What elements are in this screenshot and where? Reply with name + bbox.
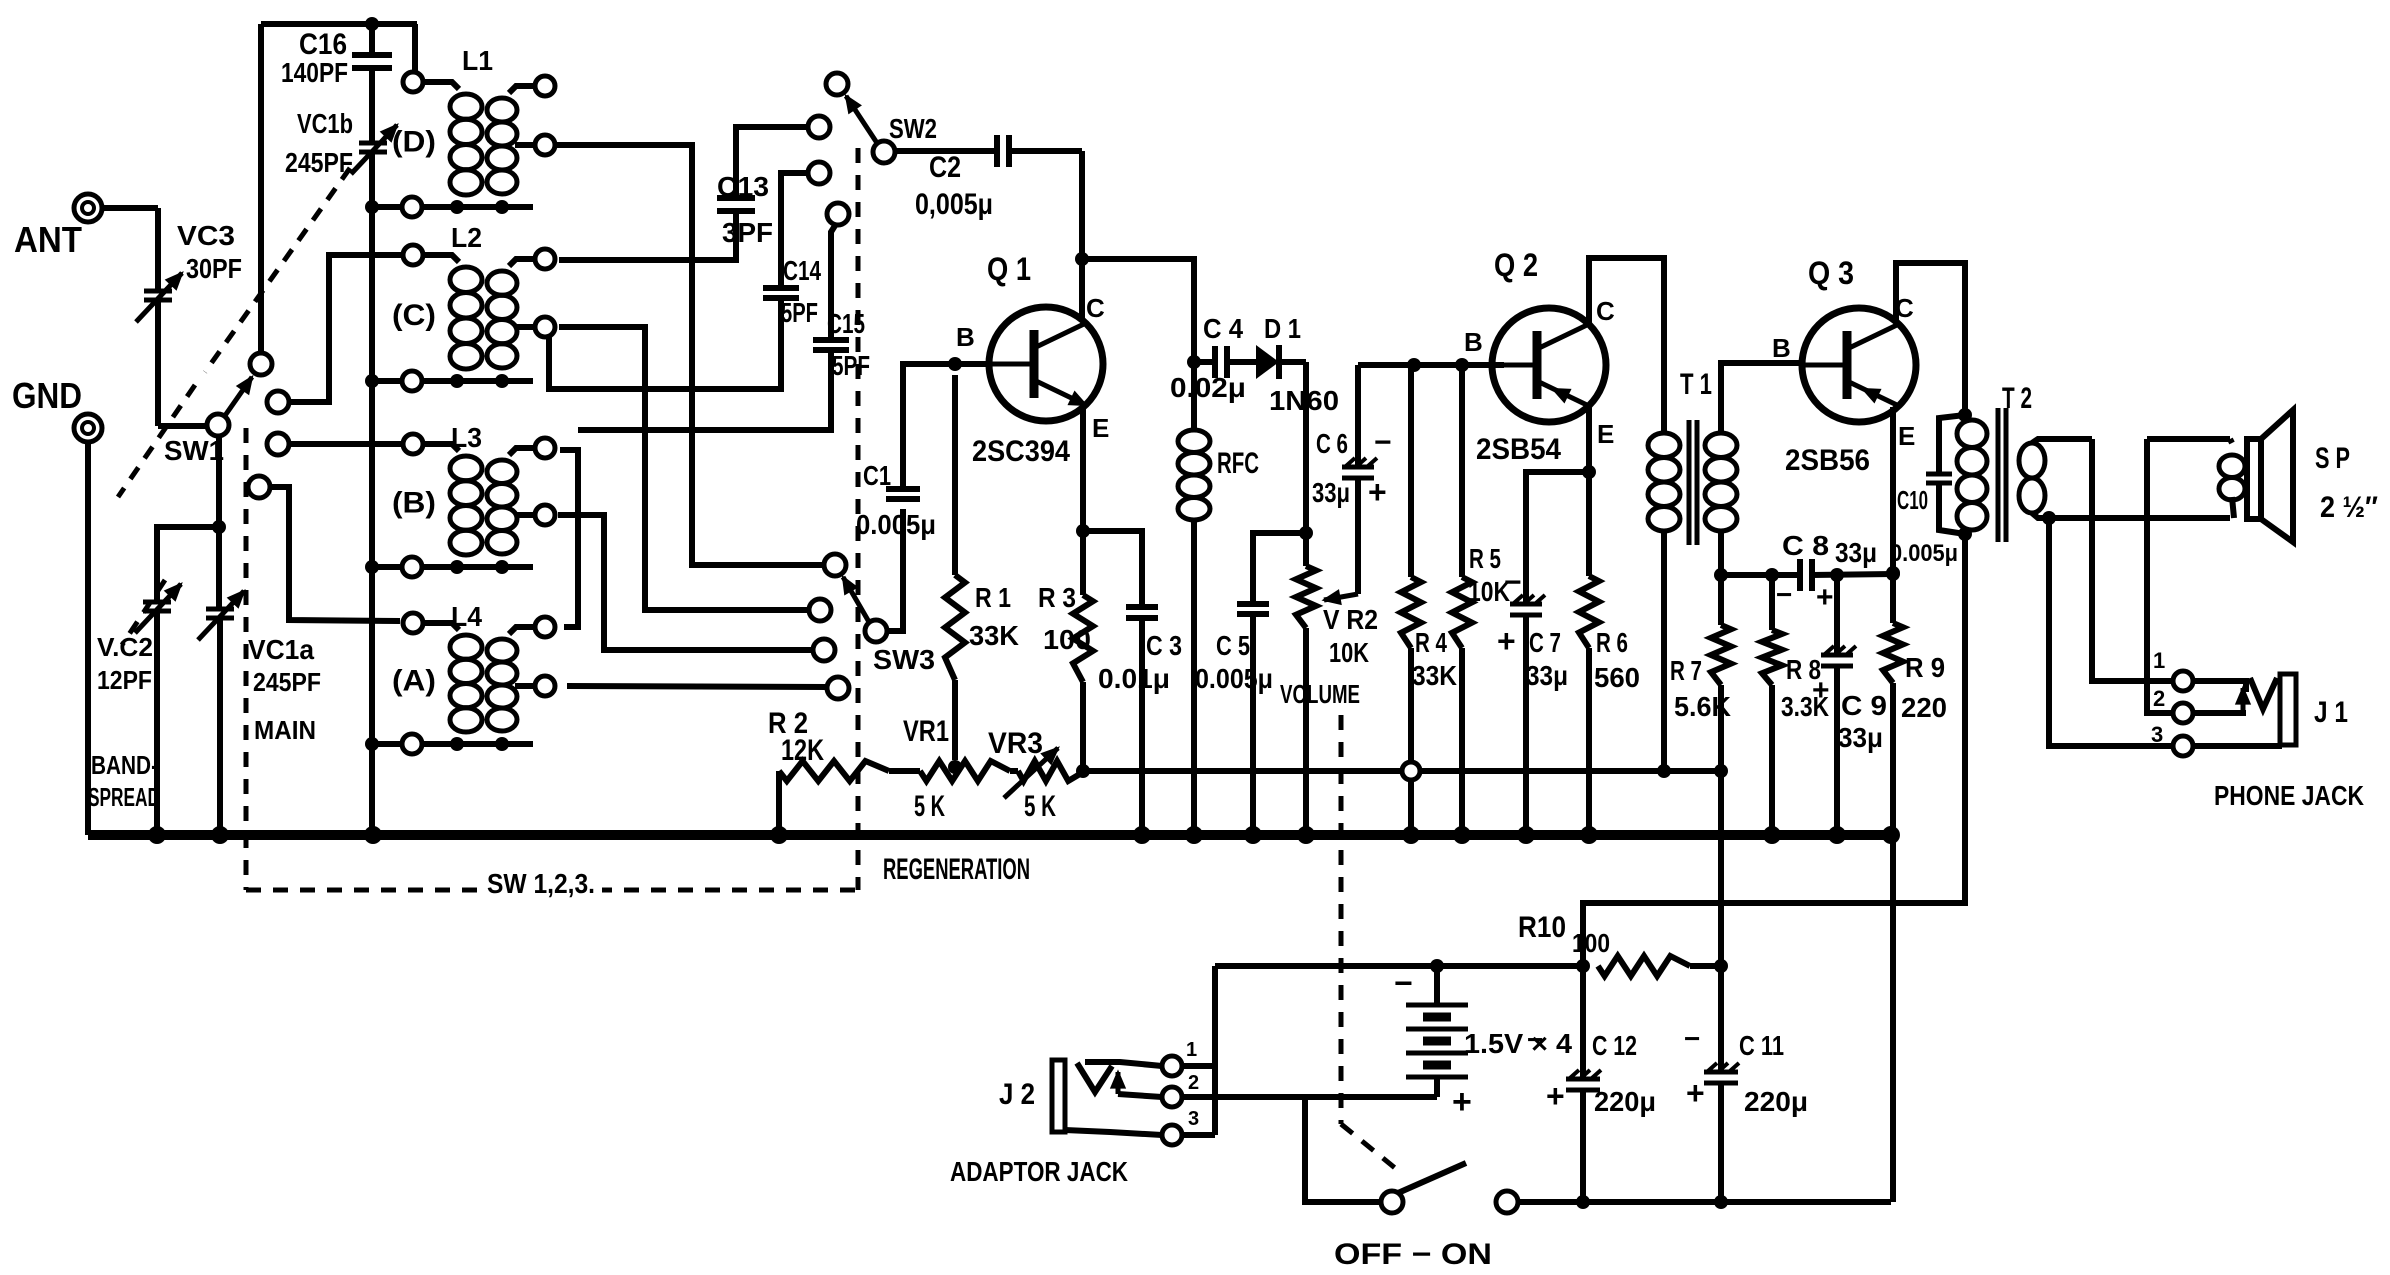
svg-text:RFC: RFC (1217, 447, 1259, 480)
svg-text:10K: 10K (1329, 637, 1369, 668)
svg-text:33μ: 33μ (1838, 722, 1883, 753)
svg-text:220μ: 220μ (1744, 1086, 1808, 1117)
svg-text:BAND-: BAND- (91, 750, 158, 780)
svg-text:T 2: T 2 (2002, 382, 2032, 415)
svg-text:B: B (1772, 333, 1791, 363)
svg-text:C 11: C 11 (1739, 1030, 1784, 1061)
svg-text:(A): (A) (392, 665, 436, 698)
svg-text:Q 2: Q 2 (1494, 247, 1538, 283)
svg-text:245PF: 245PF (253, 667, 321, 697)
svg-text:0.02μ: 0.02μ (1170, 372, 1246, 403)
svg-text:V.C2: V.C2 (97, 632, 153, 662)
svg-text:J 1: J 1 (2314, 696, 2348, 729)
svg-text:2 ½″: 2 ½″ (2320, 491, 2378, 524)
svg-text:5PF: 5PF (781, 297, 818, 328)
svg-text:−: − (1504, 566, 1522, 599)
svg-text:3: 3 (2151, 722, 2163, 747)
svg-text:C 3: C 3 (1146, 630, 1182, 661)
svg-text:560: 560 (1594, 662, 1640, 693)
svg-text:SW3: SW3 (873, 644, 935, 675)
svg-text:S P: S P (2315, 442, 2350, 475)
svg-text:140PF: 140PF (281, 57, 348, 88)
svg-text:5 K: 5 K (914, 790, 945, 823)
svg-text:VOLUME: VOLUME (1280, 679, 1360, 709)
svg-text:R10: R10 (1518, 911, 1566, 944)
svg-text:VR1: VR1 (903, 715, 949, 748)
svg-text:D 1: D 1 (1264, 313, 1301, 344)
svg-text:C 4: C 4 (1203, 313, 1243, 344)
svg-text:33K: 33K (969, 620, 1019, 651)
svg-text:0.01μ: 0.01μ (1098, 663, 1170, 694)
svg-text:R 5: R 5 (1469, 543, 1501, 574)
svg-text:(B): (B) (392, 487, 436, 520)
svg-text:2SB54: 2SB54 (1476, 433, 1561, 466)
svg-text:0.005μ: 0.005μ (1890, 540, 1958, 567)
svg-text:PHONE JACK: PHONE JACK (2214, 780, 2364, 811)
svg-text:C1: C1 (863, 460, 891, 491)
svg-text:220: 220 (1901, 692, 1947, 723)
svg-text:VR3: VR3 (988, 727, 1043, 760)
svg-text:T 1: T 1 (1680, 368, 1712, 401)
svg-text:REGENERATION: REGENERATION (883, 853, 1030, 886)
svg-text:SW 1,2,3.: SW 1,2,3. (487, 868, 595, 899)
svg-text:0.005μ: 0.005μ (856, 509, 936, 540)
svg-text:220μ: 220μ (1594, 1086, 1656, 1117)
svg-text:1: 1 (1186, 1039, 1197, 1061)
svg-text:GND: GND (12, 375, 82, 416)
svg-text:VC3: VC3 (177, 220, 235, 251)
svg-text:R 1: R 1 (975, 582, 1011, 613)
svg-text:12PF: 12PF (97, 665, 152, 695)
svg-text:33K: 33K (1412, 660, 1457, 691)
svg-text:SW1: SW1 (164, 435, 224, 466)
svg-text:E: E (1092, 413, 1109, 443)
svg-text:VC1a: VC1a (248, 634, 314, 665)
svg-text:C 5: C 5 (1216, 630, 1250, 661)
svg-text:C2: C2 (929, 151, 961, 184)
svg-text:−: − (1374, 426, 1392, 459)
svg-text:0.005μ: 0.005μ (1195, 663, 1273, 694)
svg-text:SPREAD: SPREAD (88, 782, 160, 812)
svg-text:1: 1 (2153, 648, 2165, 673)
svg-text:(C): (C) (392, 299, 436, 332)
svg-text:L3: L3 (451, 422, 482, 453)
svg-text:R 3: R 3 (1038, 582, 1076, 613)
svg-text:33μ: 33μ (1526, 660, 1568, 691)
svg-text:C15: C15 (827, 308, 865, 339)
svg-text:1.5V × 4: 1.5V × 4 (1464, 1028, 1572, 1059)
svg-text:33μ: 33μ (1312, 477, 1350, 508)
svg-text:R 7: R 7 (1670, 655, 1702, 686)
svg-text:J 2: J 2 (999, 1078, 1035, 1111)
svg-text:+: + (1812, 674, 1830, 707)
svg-text:C 7: C 7 (1529, 627, 1561, 658)
svg-text:C 8: C 8 (1782, 530, 1829, 561)
svg-text:C14: C14 (783, 255, 821, 286)
svg-text:B: B (1464, 327, 1483, 357)
svg-text:VC1b: VC1b (297, 108, 353, 139)
svg-text:+: + (1686, 1075, 1705, 1111)
svg-text:−: − (1394, 965, 1413, 1001)
svg-text:Q 1: Q 1 (987, 251, 1031, 287)
svg-text:5.6K: 5.6K (1674, 691, 1731, 722)
svg-text:+: + (1546, 1078, 1565, 1114)
svg-text:5PF: 5PF (832, 350, 870, 381)
svg-text:2: 2 (1188, 1072, 1199, 1094)
svg-text:Q 3: Q 3 (1808, 255, 1854, 291)
svg-text:OFF − ON: OFF − ON (1334, 1238, 1492, 1271)
svg-text:−: − (1776, 579, 1792, 610)
svg-text:3PF: 3PF (722, 217, 773, 248)
svg-text:5 K: 5 K (1024, 790, 1056, 823)
svg-text:C 12: C 12 (1592, 1030, 1637, 1061)
svg-text:+: + (1497, 623, 1516, 659)
svg-text:MAIN: MAIN (254, 715, 316, 745)
svg-text:C13: C13 (717, 171, 769, 202)
svg-text:R 6: R 6 (1596, 627, 1628, 658)
svg-text:SW2: SW2 (889, 113, 937, 144)
svg-text:ADAPTOR JACK: ADAPTOR JACK (950, 1156, 1128, 1187)
svg-text:3: 3 (1188, 1108, 1199, 1130)
svg-text:ANT: ANT (14, 219, 82, 260)
svg-text:R 4: R 4 (1415, 627, 1447, 658)
svg-text:+: + (1452, 1083, 1472, 1121)
svg-text:0,005μ: 0,005μ (915, 188, 993, 221)
svg-text:−: − (1527, 1024, 1543, 1055)
svg-text:30PF: 30PF (186, 253, 242, 284)
svg-text:2SB56: 2SB56 (1785, 444, 1870, 477)
svg-text:+: + (1816, 581, 1834, 614)
svg-text:C 6: C 6 (1316, 428, 1348, 459)
svg-text:2: 2 (2153, 686, 2165, 711)
svg-text:100: 100 (1043, 624, 1091, 655)
svg-text:L1: L1 (462, 45, 493, 76)
svg-text:L4: L4 (451, 601, 482, 632)
svg-text:(D): (D) (392, 126, 436, 159)
svg-text:C10: C10 (1897, 485, 1928, 515)
svg-text:L2: L2 (451, 222, 482, 253)
svg-text:12K: 12K (781, 734, 824, 767)
svg-text:C: C (1086, 293, 1105, 323)
svg-text:C: C (1596, 296, 1615, 326)
svg-text:100: 100 (1572, 928, 1610, 958)
svg-text:E: E (1597, 419, 1614, 449)
svg-text:+: + (1368, 474, 1387, 510)
svg-text:C 9: C 9 (1841, 690, 1887, 721)
svg-text:33μ: 33μ (1835, 537, 1877, 568)
svg-text:R 9: R 9 (1905, 652, 1945, 683)
svg-text:245PF: 245PF (285, 147, 353, 178)
svg-text:−: − (1684, 1023, 1700, 1054)
svg-text:V R2: V R2 (1323, 604, 1378, 635)
svg-text:B: B (956, 322, 975, 352)
svg-text:2SC394: 2SC394 (972, 435, 1070, 468)
svg-text:E: E (1898, 421, 1915, 451)
